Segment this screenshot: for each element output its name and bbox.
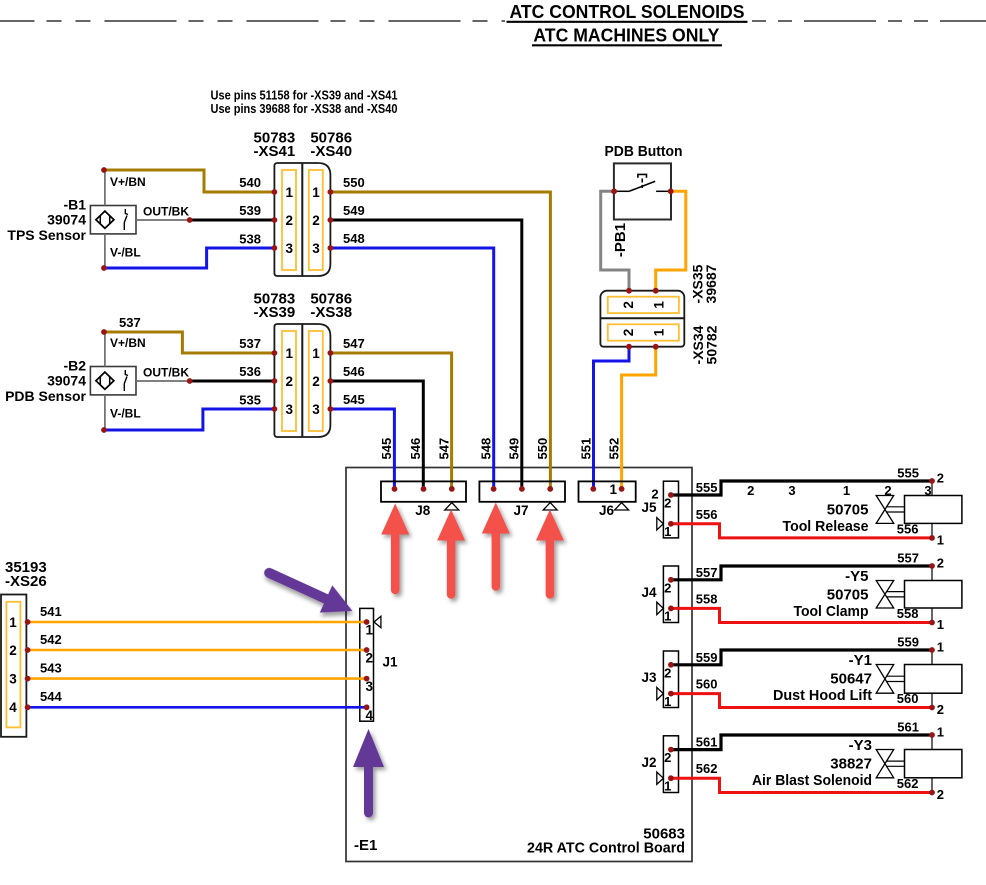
- svg-text:3: 3: [788, 483, 795, 498]
- svg-text:548: 548: [479, 438, 494, 460]
- svg-text:562: 562: [897, 776, 919, 791]
- svg-text:PDB Sensor: PDB Sensor: [5, 388, 86, 404]
- svg-text:547: 547: [343, 336, 365, 351]
- svg-text:J5: J5: [641, 500, 657, 515]
- svg-text:557: 557: [696, 565, 718, 580]
- svg-text:1: 1: [366, 623, 374, 638]
- svg-text:557: 557: [897, 551, 919, 566]
- svg-text:2: 2: [285, 213, 293, 228]
- svg-text:550: 550: [343, 175, 365, 190]
- svg-text:OUT/BK: OUT/BK: [143, 205, 189, 219]
- svg-text:3: 3: [312, 241, 320, 256]
- svg-text:549: 549: [343, 203, 365, 218]
- svg-text:-XS40: -XS40: [310, 143, 352, 160]
- svg-text:J3: J3: [641, 670, 657, 685]
- svg-text:V-/BL: V-/BL: [110, 407, 141, 421]
- svg-text:2: 2: [664, 580, 671, 595]
- svg-text:537: 537: [119, 315, 141, 330]
- svg-text:1: 1: [609, 482, 617, 497]
- svg-text:2: 2: [937, 702, 944, 717]
- svg-text:559: 559: [897, 635, 919, 650]
- svg-text:-PB1: -PB1: [612, 223, 629, 257]
- svg-text:1: 1: [9, 615, 17, 630]
- svg-text:560: 560: [897, 691, 919, 706]
- svg-text:J7: J7: [513, 503, 528, 518]
- svg-text:556: 556: [897, 521, 919, 536]
- svg-text:OUT/BK: OUT/BK: [143, 366, 189, 380]
- svg-text:552: 552: [606, 438, 621, 460]
- svg-text:-E1: -E1: [354, 837, 377, 854]
- svg-text:3: 3: [924, 483, 931, 498]
- svg-text:548: 548: [343, 231, 365, 246]
- svg-text:555: 555: [897, 466, 919, 481]
- svg-text:2: 2: [937, 556, 944, 571]
- svg-text:549: 549: [507, 438, 522, 460]
- svg-text:1: 1: [664, 524, 671, 539]
- svg-text:538: 538: [239, 232, 261, 247]
- svg-text:546: 546: [343, 364, 365, 379]
- svg-text:1: 1: [312, 185, 320, 200]
- svg-text:546: 546: [408, 438, 423, 460]
- svg-text:38827: 38827: [830, 756, 872, 773]
- svg-text:2: 2: [664, 496, 671, 511]
- svg-text:550: 550: [535, 438, 550, 460]
- svg-text:558: 558: [696, 591, 718, 606]
- svg-text:2: 2: [621, 301, 636, 309]
- svg-text:-B1: -B1: [63, 197, 86, 213]
- svg-text:2: 2: [9, 643, 17, 658]
- svg-text:-XS38: -XS38: [310, 304, 352, 321]
- svg-text:545: 545: [343, 392, 365, 407]
- svg-text:V+/BN: V+/BN: [110, 175, 146, 189]
- svg-text:1: 1: [664, 694, 671, 709]
- svg-text:-B2: -B2: [63, 358, 86, 374]
- svg-text:J1: J1: [383, 655, 399, 670]
- svg-text:2: 2: [312, 213, 320, 228]
- svg-text:543: 543: [40, 661, 62, 676]
- svg-text:2: 2: [937, 471, 944, 486]
- svg-text:2: 2: [366, 651, 374, 666]
- svg-text:562: 562: [696, 761, 718, 776]
- svg-text:2: 2: [621, 329, 636, 337]
- svg-text:J8: J8: [415, 503, 431, 518]
- svg-text:24R ATC Control Board: 24R ATC Control Board: [527, 840, 685, 857]
- svg-text:ATC MACHINES ONLY: ATC MACHINES ONLY: [533, 25, 720, 46]
- svg-text:-Y1: -Y1: [849, 652, 872, 669]
- svg-text:560: 560: [696, 677, 718, 692]
- svg-text:558: 558: [897, 606, 919, 621]
- svg-text:1: 1: [651, 301, 666, 309]
- svg-text:3: 3: [285, 402, 293, 417]
- svg-text:TPS Sensor: TPS Sensor: [7, 227, 86, 243]
- svg-text:1: 1: [843, 483, 850, 498]
- svg-text:556: 556: [696, 507, 718, 522]
- svg-text:50705: 50705: [827, 502, 869, 519]
- svg-text:3: 3: [9, 671, 17, 686]
- svg-text:540: 540: [239, 175, 261, 190]
- svg-text:Tool Release: Tool Release: [783, 518, 869, 535]
- svg-text:551: 551: [578, 438, 593, 460]
- svg-text:547: 547: [436, 438, 451, 460]
- svg-text:3: 3: [312, 402, 320, 417]
- svg-text:1: 1: [664, 779, 671, 794]
- svg-text:50782: 50782: [704, 325, 720, 364]
- svg-text:559: 559: [696, 650, 718, 665]
- svg-text:1: 1: [937, 617, 944, 632]
- svg-text:555: 555: [696, 480, 718, 495]
- svg-text:ATC CONTROL SOLENOIDS: ATC CONTROL SOLENOIDS: [510, 1, 745, 22]
- svg-text:J4: J4: [641, 585, 657, 600]
- svg-text:-XS26: -XS26: [5, 573, 47, 590]
- svg-text:2: 2: [884, 483, 891, 498]
- svg-text:537: 537: [239, 336, 261, 351]
- svg-text:2: 2: [312, 374, 320, 389]
- svg-text:1: 1: [664, 609, 671, 624]
- svg-text:V-/BL: V-/BL: [110, 246, 141, 260]
- svg-text:542: 542: [40, 632, 62, 647]
- svg-text:-Y5: -Y5: [845, 568, 868, 585]
- svg-text:39074: 39074: [47, 373, 86, 389]
- svg-text:541: 541: [40, 604, 62, 619]
- svg-text:PDB Button: PDB Button: [605, 143, 683, 160]
- svg-text:2: 2: [747, 483, 754, 498]
- svg-text:536: 536: [239, 364, 261, 379]
- svg-text:1: 1: [937, 532, 944, 547]
- svg-text:561: 561: [897, 720, 919, 735]
- svg-text:39074: 39074: [47, 212, 86, 228]
- svg-text:545: 545: [379, 438, 394, 460]
- svg-text:J6: J6: [599, 503, 615, 518]
- svg-text:1: 1: [312, 346, 320, 361]
- svg-text:544: 544: [40, 689, 62, 704]
- svg-text:561: 561: [696, 735, 718, 750]
- svg-text:-Y3: -Y3: [849, 737, 872, 754]
- svg-text:4: 4: [366, 708, 374, 723]
- svg-text:3: 3: [285, 241, 293, 256]
- svg-text:2: 2: [664, 665, 671, 680]
- svg-text:V+/BN: V+/BN: [110, 336, 146, 350]
- svg-text:Air Blast Solenoid: Air Blast Solenoid: [752, 772, 872, 789]
- svg-text:2: 2: [651, 486, 658, 501]
- svg-text:J2: J2: [641, 755, 656, 770]
- svg-text:4: 4: [9, 700, 17, 715]
- svg-text:Use pins 51158 for -XS39 and -: Use pins 51158 for -XS39 and -XS41: [211, 88, 398, 102]
- svg-text:Use pins 39688 for -XS38 and -: Use pins 39688 for -XS38 and -XS40: [211, 102, 398, 116]
- svg-text:39687: 39687: [703, 264, 719, 303]
- svg-text:1: 1: [651, 328, 666, 336]
- svg-text:-XS41: -XS41: [254, 143, 296, 160]
- svg-text:2: 2: [285, 374, 293, 389]
- svg-text:2: 2: [664, 750, 671, 765]
- svg-text:1: 1: [937, 640, 944, 655]
- svg-text:1: 1: [285, 346, 293, 361]
- svg-text:1: 1: [285, 185, 293, 200]
- svg-text:50705: 50705: [827, 587, 869, 604]
- svg-text:3: 3: [366, 679, 374, 694]
- svg-text:Dust Hood Lift: Dust Hood Lift: [773, 687, 872, 704]
- svg-text:2: 2: [937, 787, 944, 802]
- svg-text:50647: 50647: [830, 671, 872, 688]
- svg-text:Tool Clamp: Tool Clamp: [794, 603, 869, 620]
- svg-text:1: 1: [937, 725, 944, 740]
- svg-text:535: 535: [239, 393, 261, 408]
- svg-text:539: 539: [239, 203, 261, 218]
- svg-text:-XS39: -XS39: [254, 304, 296, 321]
